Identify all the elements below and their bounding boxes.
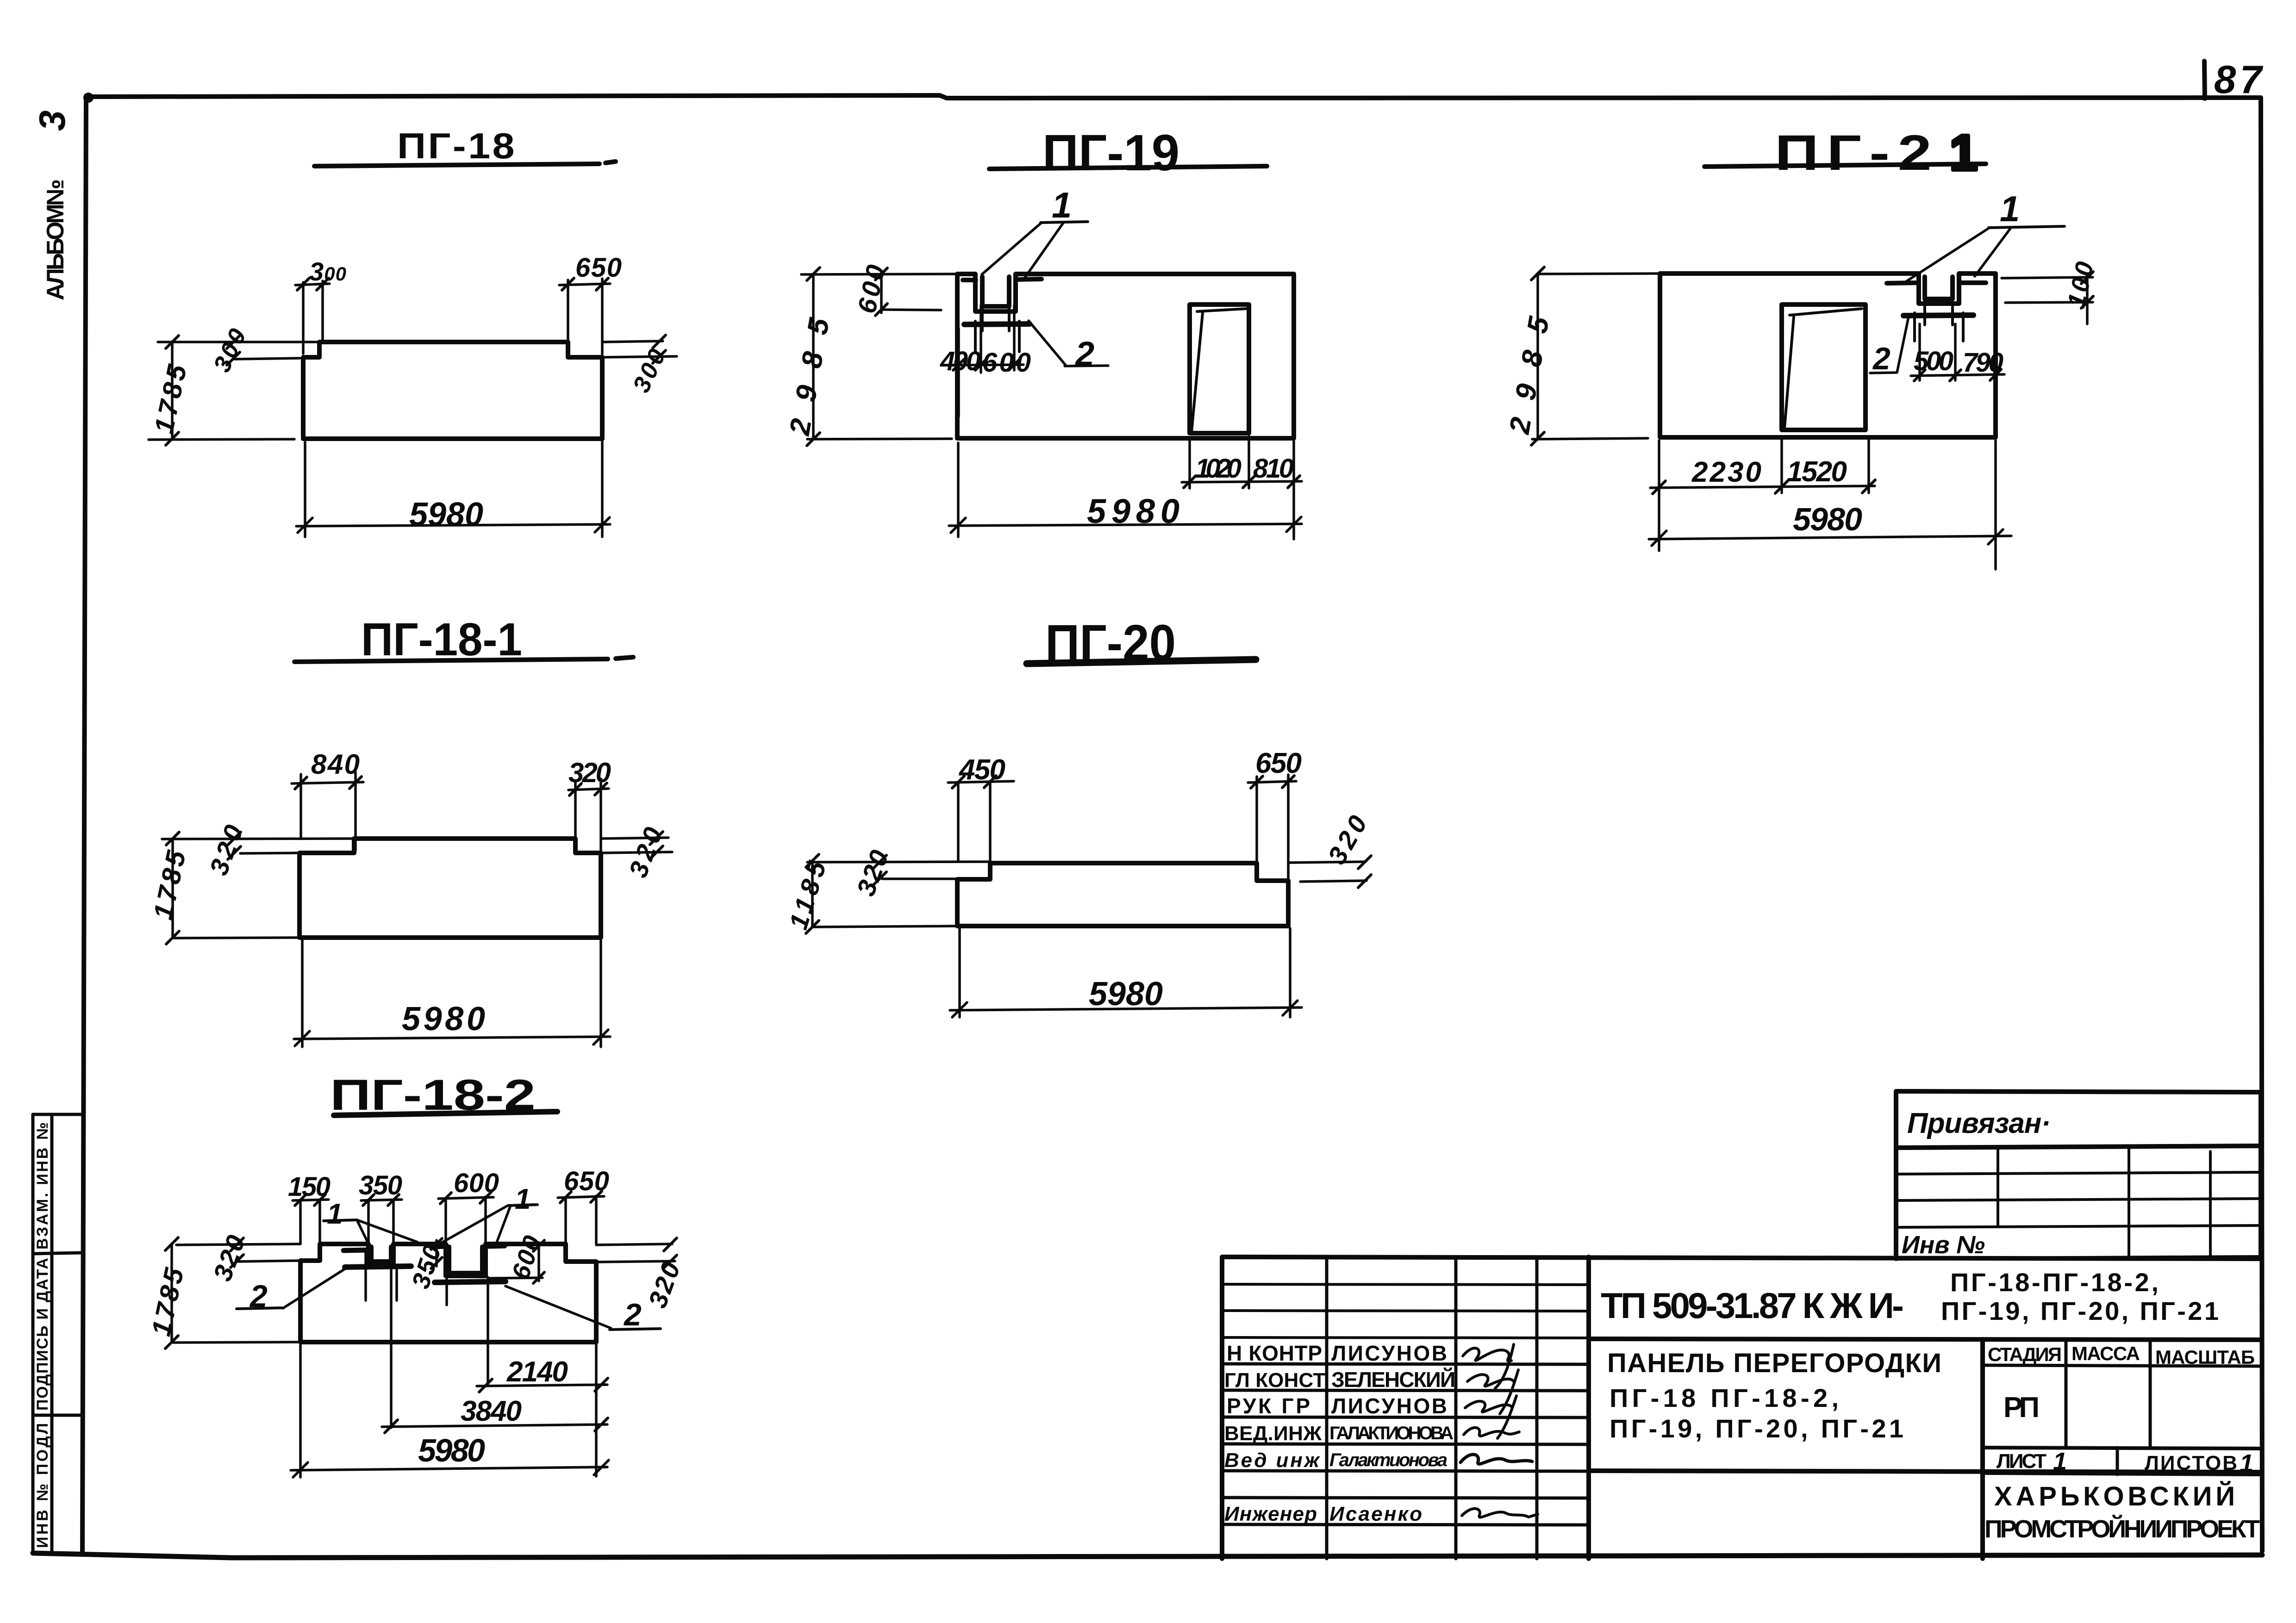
svg-text:Инв №: Инв № (1902, 1231, 1985, 1259)
PG-19 channel liner item 1 (963, 277, 1042, 306)
header divider stadiya/massa (2065, 1339, 2068, 1448)
PG-19 door dims extension verticals (1190, 436, 1294, 539)
PG-18 dim 5980 ticks (298, 517, 610, 533)
frame right line (2261, 98, 2262, 1551)
PG-21 dim 2985 vertical line (1536, 274, 1539, 439)
PG-21 channel liner item 1 (1887, 277, 1986, 299)
svg-text:ГАЛАКТИОНОВА: ГАЛАКТИОНОВА (1329, 1423, 1454, 1443)
PG-18-2 dim 3840 ticks (385, 1418, 608, 1433)
svg-text:СТАДИЯ: СТАДИЯ (1988, 1343, 2062, 1365)
svg-text:1: 1 (2240, 1449, 2253, 1477)
PG-21 dims 500 790 ticks (1914, 369, 2001, 381)
PG-20 left wing line lower (882, 877, 957, 880)
svg-text:2: 2 (623, 1297, 642, 1332)
svg-text:Вед инж: Вед инж (1224, 1449, 1321, 1472)
PG-18-1 top dim 840 extension verticals (301, 772, 356, 851)
PG-18-1 top dim 320 extension verticals (575, 779, 601, 851)
PG-18-2 top dim 600 extension verticals (446, 1197, 486, 1244)
PG-18-2 dim 2140 dim line (477, 1385, 607, 1386)
PG-18-1 dim 5980 dim line (294, 1037, 610, 1039)
PG-18-2 liner B flanges (431, 1246, 505, 1247)
PG-21 door opening (1782, 305, 1865, 430)
PG-20 dim 5980 dim line (950, 1007, 1302, 1010)
svg-text:5980: 5980 (418, 1432, 485, 1468)
PG-20 small 320 dim right ticks (1358, 856, 1371, 888)
PG-18-2 embed bar A item 2 (345, 1266, 411, 1267)
svg-text:ХАРЬКОВСКИЙ: ХАРЬКОВСКИЙ (1994, 1481, 2235, 1511)
PG-19 dim 2985 vertical line (812, 274, 815, 439)
PG-18-2 label 1 left underline (324, 1220, 357, 1221)
svg-text:2140: 2140 (506, 1356, 568, 1388)
PG-18-2 top dim 600 ticks (440, 1192, 491, 1204)
PG-18-2 top dim 150 dim line (293, 1200, 329, 1200)
PG-20 small 320 dim left ticks (873, 855, 886, 885)
privyazan header separator (1896, 1146, 2261, 1148)
svg-text:1: 1 (2000, 188, 2020, 229)
svg-text:ПОДПИСЬ И ДАТА: ПОДПИСЬ И ДАТА (34, 1258, 51, 1411)
svg-text:1: 1 (515, 1183, 530, 1215)
svg-text:ПАНЕЛЬ ПЕРЕГОРОДКИ: ПАНЕЛЬ ПЕРЕГОРОДКИ (1607, 1348, 1945, 1378)
privyazan row line 3 (1896, 1225, 2261, 1227)
PG-18-1 dim 5980 ticks (295, 1030, 608, 1046)
PG-18-2 top dim 350 dim line (361, 1200, 402, 1200)
svg-text:АЛЬБОМ№: АЛЬБОМ№ (42, 179, 69, 300)
header divider massa/masshtab (2149, 1340, 2152, 1448)
page number tick (2204, 61, 2205, 99)
PG-18-2 mid dim 350 vertical (435, 1240, 438, 1266)
title block outer (1222, 1257, 2261, 1559)
svg-text:1: 1 (327, 1198, 343, 1230)
PG-18-2 liner B inner U (449, 1247, 482, 1273)
svg-text:1: 1 (1950, 124, 1978, 180)
PG-21 dim 100 vertical line (2086, 275, 2089, 324)
PG-18-2 small 320 left ticks (231, 1238, 243, 1268)
svg-text:320: 320 (568, 757, 611, 788)
PG-20 top dim 650 extension verticals (1257, 775, 1288, 879)
title block row line r4 (1222, 1364, 1589, 1364)
signature squiggle 2 (1467, 1370, 1518, 1414)
PG-18-2 top dim 350 ticks (363, 1194, 399, 1206)
PG-21 top extension line to 2985 (1538, 274, 1660, 274)
PG-18-2 small 320 right ticks (664, 1238, 677, 1268)
title block row line r2 (1222, 1311, 1589, 1311)
stadiya massa masshtab header bottom (1983, 1365, 2261, 1366)
PG-18 right wing line top (602, 341, 663, 342)
title block column c1 (1325, 1257, 1329, 1559)
PG-18-2 dim 2140 extension vertical right (595, 1344, 598, 1476)
svg-text:600: 600 (982, 348, 1031, 378)
PG-21 door dims extension verticals (1782, 436, 1869, 493)
PG-21 dim 2985 ticks (1531, 267, 1544, 445)
PG-21 dims 2230 1520 ticks (1653, 480, 1875, 494)
signature squiggle 1 (1463, 1344, 1514, 1388)
svg-text:РП: РП (2003, 1392, 2040, 1424)
svg-text:Галактионова: Галактионова (1329, 1450, 1447, 1470)
privyazan vertical divider 3 (2209, 1151, 2212, 1257)
right section divider (stadiya left edge) (1980, 1339, 1985, 1559)
svg-text:ПГ-19, ПГ-20, ПГ-21: ПГ-19, ПГ-20, ПГ-21 (1941, 1296, 2219, 1325)
frame corner dot top-left (83, 93, 94, 103)
svg-text:150: 150 (288, 1172, 331, 1202)
PG-21 embed bar item 2 (1903, 315, 1973, 316)
svg-text:5980: 5980 (1089, 976, 1163, 1013)
svg-text:790: 790 (1963, 348, 2003, 378)
PG-21 dim 100 extension lines right (2002, 277, 2093, 303)
PG-18-2 dim 5980 dim line (291, 1467, 607, 1470)
svg-text:400: 400 (940, 346, 981, 376)
PG-21 dims 500 790 dim line (1911, 374, 2004, 376)
PG-18 left wing line lower (235, 358, 300, 359)
PG-18-2 top dim 350 extension verticals (368, 1200, 393, 1244)
PG-18 right wing line lower (602, 356, 677, 357)
PG-18-2 label 1 left leaders (357, 1220, 418, 1248)
PG-18-2 label 1 right leaders (436, 1206, 511, 1246)
PG-21 label 1 leader lines (1906, 227, 2011, 281)
PG-20 left wing line top (807, 862, 990, 862)
panel PG-18 outline (303, 342, 602, 439)
PG-18 top dim 300: dim line (295, 284, 330, 285)
PG-18 bottom extension line (149, 439, 294, 440)
privyazan bottom line (1896, 1257, 2261, 1259)
PG-18-2 label 2 left leader (283, 1268, 346, 1308)
PG-19 dim 5980 dim line (949, 524, 1302, 526)
title underline PG-18-2 (334, 1112, 557, 1115)
svg-text:500: 500 (1914, 346, 1953, 376)
PG-20 right wing line top (1288, 862, 1366, 863)
title underline PG-18-1 (294, 657, 633, 662)
PG-18 dim 5980: extension verticals (305, 441, 602, 537)
frame left line (82, 96, 86, 1553)
PG-18-2 label 2 right leader (505, 1286, 611, 1328)
svg-text:810: 810 (1253, 454, 1294, 484)
svg-text:ТП 509-31.87 К Ж И-: ТП 509-31.87 К Ж И- (1601, 1285, 1904, 1326)
PG-19 door opening (1190, 305, 1249, 433)
PG-19 door leaf (1192, 309, 1246, 432)
PG-21 dim 5980 dim line (1649, 536, 2011, 539)
svg-text:ПГ-19: ПГ-19 (1042, 124, 1179, 181)
title block row line r10 (1222, 1524, 1589, 1525)
PG-18-2 dim 2140 ticks (479, 1378, 608, 1392)
PG-18-2 mid dim 600 vertical (537, 1243, 540, 1281)
PG-18-2 left wing line lower (236, 1261, 300, 1262)
PG-18-1 left wing line lower (240, 853, 299, 853)
svg-text:650: 650 (564, 1166, 609, 1196)
svg-text:ПГ-18 ПГ-18-2,: ПГ-18 ПГ-18-2, (1610, 1383, 1839, 1412)
PG-21 label 2 underline and leader (1870, 315, 1909, 373)
panel PG-21 outline (1660, 274, 1996, 437)
PG-19 top extension line to 2985 (801, 274, 957, 274)
svg-text:МАСШТАБ: МАСШТАБ (2155, 1346, 2255, 1368)
PG-21 dims 2230 1520 dim line (1650, 486, 1875, 488)
svg-text:600: 600 (454, 1168, 499, 1198)
PG-18-2 label 1 right underline (508, 1205, 537, 1206)
PG-19 dims 400 600 dim line (951, 365, 1023, 365)
PG-19 dim 2985 ticks (807, 267, 820, 446)
svg-text:ЛИСУНОВ: ЛИСУНОВ (1331, 1341, 1447, 1365)
privyazan row line 2 (1896, 1199, 2261, 1200)
svg-text:ПГ-18-ПГ-18-2,: ПГ-18-ПГ-18-2, (1950, 1268, 2159, 1297)
privyazan box outline (1896, 1091, 2261, 1259)
svg-text:РУК ГР: РУК ГР (1227, 1394, 1310, 1418)
PG-21 bar whiskers (1915, 300, 1963, 341)
PG-19 bottom extension to 2985 (807, 439, 952, 439)
svg-text:ИНВ № ПОДЛ: ИНВ № ПОДЛ (34, 1423, 51, 1548)
PG-18-2 embed bar B item 2 (435, 1281, 505, 1282)
svg-text:2: 2 (1872, 341, 1890, 376)
PG-18-2 dim 1785 vertical line (170, 1244, 173, 1342)
svg-text:1: 1 (1052, 185, 1072, 225)
PG-18-2 top dim 650 ticks (560, 1191, 602, 1203)
PG-18-2 bar A whiskers (366, 1250, 397, 1428)
PG-18 top dim 650: dim line (559, 284, 610, 285)
svg-text:5980: 5980 (1793, 501, 1862, 537)
PG-18-2 top dim 600 dim line (438, 1197, 493, 1199)
PG-18-1 top dim 320 dim line (568, 789, 609, 790)
PG-19 dim 600 ticks (875, 268, 887, 316)
PG-19 dim 5980 extension vertical left (957, 443, 960, 537)
PG-18 top dim 300: ticks (297, 278, 329, 290)
PG-18-1 dim 1785 vertical line (171, 839, 174, 938)
list/listov divider (2116, 1448, 2119, 1474)
svg-text:ПРОМСТРОЙНИИПРОЕКТ: ПРОМСТРОЙНИИПРОЕКТ (1984, 1515, 2260, 1543)
PG-18-1 top dim 840 ticks (295, 777, 362, 789)
title block row line r8 (1222, 1471, 1589, 1471)
PG-18 top dim 300: extension lines (303, 281, 323, 354)
title block column c3 (1535, 1257, 1539, 1559)
svg-text:ПГ-2: ПГ-2 (1775, 124, 1940, 180)
privyazan row line 1 (1896, 1172, 2261, 1174)
title underline PG-21 (1704, 164, 1986, 167)
PG-18-1 bottom extension line (174, 938, 299, 938)
PG-18-1 top dim 320 ticks (569, 783, 607, 796)
panel PG-18-2 outline (300, 1244, 596, 1342)
svg-text:450: 450 (958, 754, 1005, 786)
title block column c4 (signature table right edge) (1586, 1257, 1591, 1559)
svg-text:ПГ-18: ПГ-18 (397, 125, 517, 166)
svg-text:Инженер: Инженер (1224, 1503, 1317, 1525)
PG-18 left wing line top (158, 341, 319, 343)
central cell bottom line (1589, 1471, 2261, 1472)
list row top line (1983, 1448, 2261, 1449)
svg-text:ЗЕЛЕНСКИЙ: ЗЕЛЕНСКИЙ (1331, 1368, 1455, 1392)
PG-20 top dim 650 ticks (1251, 776, 1294, 788)
PG-18 top dim 650: ticks (562, 278, 608, 290)
PG-18-2 liner A inner U (371, 1247, 391, 1262)
title block row line r9 (1222, 1498, 1589, 1498)
PG-18 dim 5980: dim line (296, 524, 610, 526)
PG-20 right wing line lower (1300, 881, 1366, 882)
PG-21 dims 500 790 extension verticals (1920, 305, 1996, 437)
PG-18-2 mid dim 350 ticks (431, 1238, 442, 1269)
PG-18-1 small 320 dim left ticks (228, 832, 241, 859)
PG-18-2 right wing line lower (596, 1261, 675, 1262)
PG-19 dims 400 600 ticks (953, 359, 1020, 370)
PG-21 door leaf (1784, 309, 1862, 428)
title block row line r5 (1222, 1390, 1589, 1391)
PG-20 dim 5980 extension verticals (960, 928, 1290, 1017)
panel PG-20 outline (957, 863, 1288, 926)
svg-text:Н КОНТР: Н КОНТР (1227, 1341, 1322, 1365)
title underline PG-19 (989, 166, 1267, 169)
list row bottom line (1983, 1473, 2261, 1474)
svg-text:350: 350 (359, 1170, 402, 1200)
PG-18-1 dim 1785 ticks (166, 832, 179, 944)
svg-text:650: 650 (1255, 747, 1302, 779)
PG-18-2 liner A flange (343, 1250, 369, 1250)
PG-20 top dim 450 dim line (948, 781, 1014, 783)
PG-19 door dims ticks (1184, 476, 1300, 488)
PG-18-2 mid dim 600 extension (488, 1278, 543, 1278)
title block row line r6 (1222, 1417, 1589, 1418)
PG-20 bottom extension line (813, 926, 957, 927)
title block column c2 (1454, 1257, 1458, 1559)
PG-21 dim 100 ticks (2081, 272, 2093, 308)
PG-18-2 dim 5980 ticks (293, 1460, 609, 1477)
PG-18 dim 1785: vertical line (171, 342, 174, 439)
PG-18-2 label 2 right underline (610, 1329, 661, 1330)
kji band bottom line center-right (1589, 1339, 2261, 1340)
PG-19 dim 600 vertical line (880, 271, 883, 313)
svg-text:3: 3 (31, 111, 73, 131)
PG-18-1 dim 5980 extension verticals (302, 940, 601, 1047)
PG-18-1 left wing line top (162, 839, 354, 839)
svg-text:ЛИСУНОВ: ЛИСУНОВ (1331, 1394, 1447, 1418)
title block row line r1 (1222, 1284, 1589, 1285)
PG-18-2 dim 1785 ticks (165, 1237, 178, 1349)
svg-text:5980: 5980 (409, 496, 483, 533)
PG-19 door dims dim line (1182, 481, 1302, 482)
PG-18-2 left wing line top (176, 1244, 300, 1245)
PG-18 dim 1785 ticks (166, 336, 179, 445)
signature squiggle 3 (1465, 1396, 1516, 1438)
svg-text:Привязан·: Привязан· (1907, 1107, 2051, 1139)
PG-18-2 dim 3840 dim line (382, 1424, 607, 1427)
svg-text:ВЕД.ИНЖ: ВЕД.ИНЖ (1224, 1422, 1322, 1445)
frame top line (88, 95, 2261, 98)
PG-18-1 right wing line top (601, 838, 668, 839)
PG-18-2 mid dim 600 ticks (533, 1240, 544, 1283)
PG-18 small 300 dim right ticks (653, 335, 666, 363)
PG-18-1 top dim 840 dim line (292, 782, 363, 784)
PG-20 dim 1185 vertical line (811, 861, 814, 927)
signature squiggle 4 (1464, 1428, 1519, 1436)
signature squiggle 6 (1462, 1509, 1538, 1517)
PG-18-2 top dim 150 ticks (295, 1194, 325, 1206)
title underline PG-20 (1027, 659, 1256, 664)
PG-18-2 top dim 150 extension verticals (300, 1200, 320, 1244)
PG-21 bottom extension to 2985 (1532, 438, 1648, 439)
PG-20 dim 5980 ticks (952, 1001, 1298, 1017)
svg-text:1020: 1020 (1195, 454, 1242, 484)
panel PG-19 outline (957, 274, 1294, 438)
PG-18-1 small 320 dim right ticks (650, 832, 663, 859)
signature squiggle 5 (1460, 1455, 1532, 1464)
title block row line r3 (kji band bottom left) (1222, 1337, 1589, 1338)
svg-text:1520: 1520 (1787, 456, 1847, 488)
svg-text:650: 650 (575, 253, 622, 283)
PG-19 dims 400 600 extension verticals (959, 305, 1014, 417)
PG-19 label 2 underline and leader (1029, 321, 1108, 366)
svg-text:2: 2 (1074, 335, 1094, 373)
PG-19 dim 600 bottom extension (881, 310, 941, 310)
left edge stamp table (31, 1114, 35, 1553)
PG-19 embed bar item 2 (964, 324, 1029, 324)
svg-text:840: 840 (311, 749, 360, 780)
PG-18-2 top dim 650 dim line (558, 1196, 604, 1198)
PG-21 dim 5980 ticks (1652, 529, 2003, 546)
privyazan vertical divider 2 (2128, 1147, 2130, 1258)
PG-21 dim 5980 extension verticals (1659, 441, 1996, 569)
PG-20 top dim 650 dim line (1248, 781, 1296, 783)
title underline PG-18 (314, 162, 616, 166)
title block row line r7 (1222, 1444, 1589, 1444)
PG-19 dim 5980 ticks (951, 517, 1301, 533)
PG-20 top dim 450 extension verticals (958, 781, 990, 877)
svg-text:1: 1 (2053, 1448, 2067, 1475)
PG-20 dim 1185 ticks (806, 854, 819, 933)
PG-21 label 1 underline (1989, 226, 2065, 228)
PG-18-2 dim 5980 extension vertical left (299, 1344, 302, 1477)
svg-text:ЛИСТ: ЛИСТ (1997, 1450, 2046, 1473)
PG-19 bar whiskers (975, 307, 1019, 352)
PG-18-1 right wing line lower (601, 852, 672, 853)
PG-18-2 label 2 left underline (237, 1308, 282, 1309)
PG-18-2 right wing line top (596, 1244, 672, 1245)
privyazan vertical divider 1 (1997, 1147, 1999, 1226)
frame bottom line (33, 1553, 2262, 1558)
PG-18 top dim 650: extension lines (568, 279, 602, 354)
PG-20 top dim 450 ticks (952, 776, 996, 788)
panel PG-18-1 outline (299, 839, 601, 938)
PG-19 label 1 leader lines (982, 222, 1064, 278)
PG-18-2 bottom extension line (173, 1342, 300, 1343)
svg-text:ГЛ КОНСТ: ГЛ КОНСТ (1224, 1369, 1325, 1392)
PG-19 label 1 underline (1041, 222, 1088, 223)
PG-18-2 bar B whiskers (447, 1276, 488, 1386)
PG-18-2 top dim 650 extension verticals (566, 1196, 596, 1244)
PG-18 small 300 dim left ticks (227, 336, 240, 365)
svg-text:МАССА: МАССА (2071, 1343, 2140, 1364)
svg-text:3840: 3840 (461, 1395, 522, 1427)
